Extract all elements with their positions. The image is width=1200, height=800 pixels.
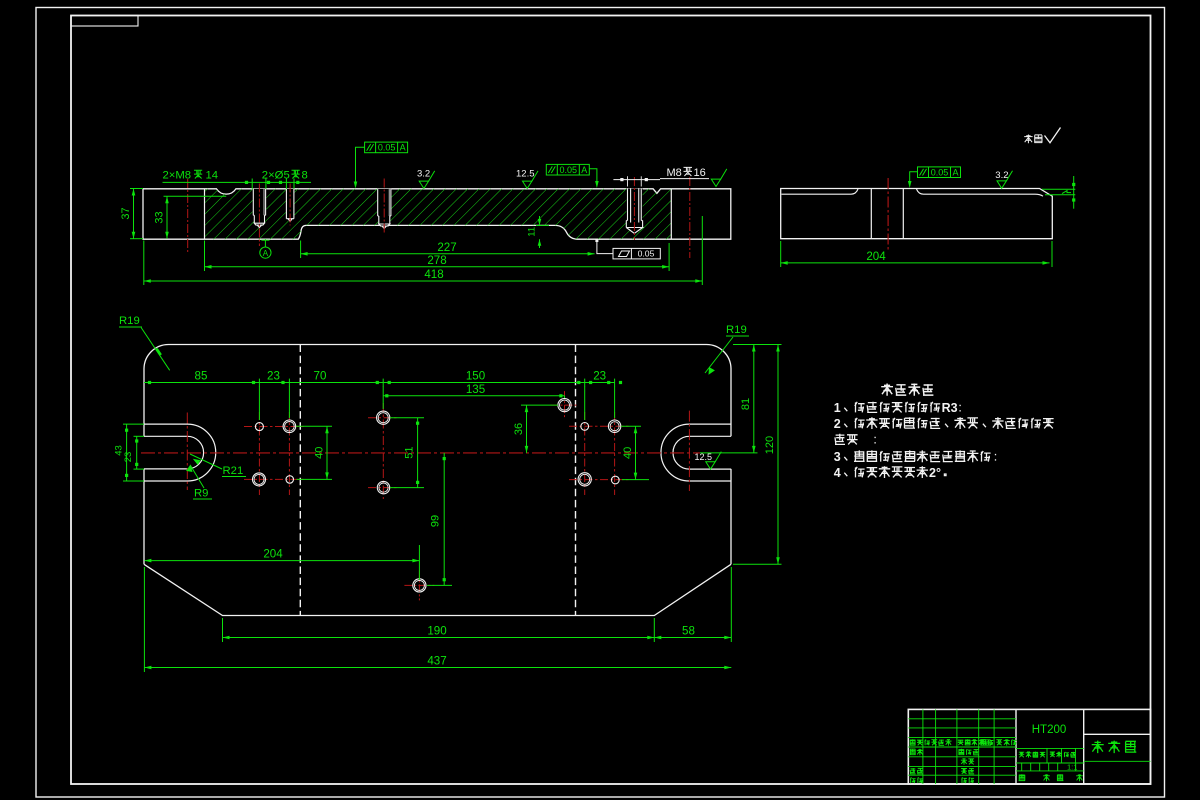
flatness frame 0.05 (white) <box>613 248 660 259</box>
svg-text:204: 204 <box>263 548 283 561</box>
svg-text:135: 135 <box>466 383 485 396</box>
central hole top <box>377 411 390 424</box>
dim 11 step <box>539 216 541 225</box>
svg-text:8: 8 <box>302 170 308 182</box>
middle small boxes row dividers <box>1021 763 1023 771</box>
svg-text:14: 14 <box>206 170 219 182</box>
dim 120 <box>733 563 782 565</box>
svg-text:58: 58 <box>682 625 695 638</box>
dim 51 <box>390 417 424 419</box>
title block right column split (white) <box>1084 733 1151 735</box>
left group hole TL (small) <box>255 423 263 431</box>
tapped hole M8x14 (left) black core <box>253 189 267 228</box>
dim 278 <box>204 241 206 272</box>
right slot outer contour <box>661 424 731 481</box>
svg-text:33: 33 <box>154 211 166 223</box>
svg-text:12.5: 12.5 <box>516 169 535 180</box>
plan bottom trapezoid <box>144 564 731 615</box>
svg-text:0.05: 0.05 <box>931 167 949 177</box>
datum A symbol <box>260 247 271 258</box>
hole4 red centerline <box>633 177 635 240</box>
left group hole BL (tapped) <box>253 473 266 486</box>
hatch zone right boundary <box>670 189 672 239</box>
technical requirements title <box>881 384 933 396</box>
small step dim 5 (right of side view) <box>1042 188 1075 190</box>
svg-text:R21: R21 <box>223 465 244 477</box>
plan main horizontal red centerline <box>141 452 700 454</box>
hole1 red centerline <box>258 184 260 247</box>
tapped hole M8x14 (left) outline <box>253 189 265 228</box>
left revision grid verticals <box>908 709 1150 784</box>
dim chain 85/23/70/150/23 <box>144 382 615 384</box>
plan left edge segments <box>143 369 145 565</box>
left group hole BR (small) <box>286 476 294 484</box>
svg-text:1:1: 1:1 <box>1067 763 1077 772</box>
section break dashed line left <box>299 345 301 616</box>
svg-text:A: A <box>263 249 269 258</box>
right slot inner contour <box>673 436 731 469</box>
hole3 red centerline <box>383 179 385 234</box>
tapped hole M8x14 (mid) outline <box>378 189 391 229</box>
left group hole TR (tapped) <box>283 420 296 433</box>
right group hole BL (tapped) <box>578 473 591 486</box>
svg-text:2°: 2° <box>929 466 941 480</box>
svg-text:40: 40 <box>622 447 634 459</box>
side view outline <box>781 189 1053 239</box>
dim 190 <box>222 618 224 642</box>
title block outer box <box>908 709 1150 784</box>
svg-text:85: 85 <box>195 370 208 383</box>
dim 58 <box>730 567 732 642</box>
svg-text:3.2: 3.2 <box>995 170 1008 181</box>
middle column row lines <box>1016 747 1084 749</box>
svg-text:0.05: 0.05 <box>638 249 655 259</box>
svg-text:3: 3 <box>834 450 841 464</box>
dim 33 <box>164 195 227 197</box>
svg-text:190: 190 <box>427 625 446 638</box>
hatch zone left boundary <box>204 189 206 239</box>
tech req line 3 <box>835 434 875 445</box>
svg-text:R3: R3 <box>942 401 958 415</box>
left hole group red axes <box>258 412 260 495</box>
drilled hole 5x8 outline <box>286 189 294 222</box>
tapped hole M8x16 outline <box>626 189 642 234</box>
svg-text:16: 16 <box>694 167 706 179</box>
title block small labels <box>910 739 1083 783</box>
side view groove edge right <box>902 189 904 239</box>
section view body outline <box>143 189 731 239</box>
svg-text:M8: M8 <box>667 167 682 179</box>
side view recessed top surface left <box>782 189 859 194</box>
default roughness note (qiyu + check) <box>1024 135 1042 144</box>
svg-text:A: A <box>400 143 406 153</box>
svg-text:R9: R9 <box>194 488 208 500</box>
svg-text:120: 120 <box>764 436 776 454</box>
svg-text:A: A <box>581 165 587 175</box>
side view groove edge left <box>870 189 872 239</box>
central hole bottom <box>377 481 389 493</box>
dim 37 left <box>130 188 143 190</box>
svg-text:204: 204 <box>866 250 886 263</box>
dim 437 <box>143 567 145 672</box>
svg-text:2: 2 <box>834 417 841 431</box>
svg-text:99: 99 <box>430 515 442 527</box>
part name jiajuti <box>1092 741 1137 754</box>
svg-text:36: 36 <box>513 423 525 435</box>
bottom hole <box>404 584 434 586</box>
svg-text:A: A <box>952 167 958 177</box>
side view red centerline <box>887 178 889 251</box>
dim 204 <box>780 241 782 267</box>
dim 418 <box>143 241 145 286</box>
top-left attachment box <box>71 16 138 27</box>
svg-text:37: 37 <box>120 207 132 219</box>
drilled hole 5x8 black core <box>286 189 295 223</box>
svg-text:0.05: 0.05 <box>560 165 578 175</box>
right group hole TR (tapped) <box>608 420 620 432</box>
leader line under hole labels <box>163 181 312 183</box>
svg-text:227: 227 <box>437 241 456 254</box>
left slot inner contour <box>144 436 204 469</box>
M8x16 hole width dim (white) <box>613 179 660 181</box>
svg-text:HT200: HT200 <box>1032 724 1067 736</box>
chain extension lines down to holes <box>258 386 260 420</box>
tapped hole M8x16 black core <box>626 189 642 234</box>
right hole group red axes <box>584 412 586 495</box>
right group hole TL (small) <box>581 423 589 431</box>
parallelism frame 0.05 A (left) <box>365 142 408 153</box>
section break dashed line right <box>575 345 577 616</box>
svg-text:2×M8: 2×M8 <box>163 170 192 182</box>
left revision grid horizontals <box>908 718 1016 720</box>
right lug red centerline <box>689 177 691 258</box>
svg-text:437: 437 <box>427 655 446 668</box>
parallelism frame 0.05 A (side view) <box>918 167 961 178</box>
dim 43 left <box>123 423 144 425</box>
svg-text:11: 11 <box>527 227 538 237</box>
svg-text:23: 23 <box>123 452 134 463</box>
svg-text:3.2: 3.2 <box>417 169 430 180</box>
dim 204 plan <box>418 545 420 580</box>
dim 99 <box>443 453 445 586</box>
svg-text:R19: R19 <box>119 315 140 327</box>
dim 81 <box>733 344 758 346</box>
svg-text:0.05: 0.05 <box>378 143 396 153</box>
dim 40 left group <box>296 425 332 427</box>
svg-text:81: 81 <box>740 398 752 410</box>
svg-text:23: 23 <box>593 370 606 383</box>
svg-text:R19: R19 <box>726 324 747 336</box>
tapped hole M8x14 (mid) black core <box>377 189 392 229</box>
plan right edge segments <box>730 369 732 565</box>
upper middle hole <box>551 404 579 406</box>
svg-text:1: 1 <box>834 401 841 415</box>
plan view outline top edge with corner radii <box>144 345 731 369</box>
svg-text:23: 23 <box>267 370 280 383</box>
left lug red centerline <box>187 179 189 253</box>
title block main vertical dividers (white) <box>1015 709 1017 784</box>
svg-text:150: 150 <box>466 370 485 383</box>
left slot outer contour <box>144 424 216 481</box>
dim 36 <box>521 404 558 406</box>
hole2 red centerline <box>289 184 291 226</box>
right slot red centerline <box>688 411 690 491</box>
dim 40 right group <box>621 425 641 427</box>
svg-text:4: 4 <box>834 466 841 480</box>
dim 23 left <box>134 435 145 437</box>
svg-text:40: 40 <box>314 447 326 459</box>
dim 227 <box>300 241 302 259</box>
svg-text:418: 418 <box>424 268 443 281</box>
dim 135 <box>383 395 564 397</box>
parallelism frame 0.05 A (mid) <box>546 164 589 175</box>
side view recessed top surface right <box>917 189 1044 196</box>
central pair red axis <box>382 403 384 499</box>
section hatch (cut area) <box>205 188 672 240</box>
left slot red centerline <box>186 413 188 491</box>
svg-text:70: 70 <box>314 370 327 383</box>
svg-text:51: 51 <box>404 446 416 458</box>
svg-text:278: 278 <box>427 254 446 267</box>
middle labels row dividers <box>1046 748 1048 763</box>
right group hole BR (small) <box>611 476 619 484</box>
svg-text:12.5: 12.5 <box>695 452 713 462</box>
right column split (green) <box>1084 760 1151 762</box>
